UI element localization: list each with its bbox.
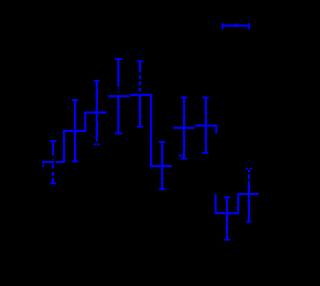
- error bar EB10 split top cap: [246, 168, 253, 170]
- error bar EB9 vertical: [226, 197, 228, 240]
- error bar EB5 caps: [137, 61, 144, 126]
- error bar EB3 vertical: [96, 81, 98, 142]
- step line bin 8: [195, 126, 216, 134]
- step line bins 1-3: [56, 112, 107, 162]
- error bar EB8 caps: [202, 98, 209, 153]
- step line bins 9-10: [216, 194, 259, 213]
- error bar EB3 split bottom cap: [94, 143, 100, 145]
- error bar EB8 vertical: [205, 98, 207, 153]
- error bar EB10 vertical: [248, 170, 250, 222]
- legend marker bump: [235, 24, 238, 26]
- legend sample line: [223, 25, 250, 27]
- legend caps: [223, 23, 250, 29]
- stray dash near bin7: [179, 155, 182, 157]
- error bar EB2 caps: [72, 100, 79, 161]
- error bar EB3 top cap: [94, 80, 100, 82]
- error bar EB5 vertical: [139, 61, 141, 126]
- step line bin 1 segment a: [42, 161, 54, 163]
- error bar EB7 vertical: [183, 97, 185, 158]
- step line bin 4: [108, 95, 130, 97]
- dashed tick below bin1 left end: [42, 164, 44, 168]
- error bar EB7 caps: [181, 97, 187, 158]
- error bar EB4 caps: [115, 59, 122, 134]
- error bar EB1 dim segment: [52, 158, 54, 160]
- error bar EB4 vertical: [117, 59, 119, 134]
- error bar EB4 dim dashes: [117, 88, 119, 93]
- error bar EB2 vertical: [74, 100, 76, 161]
- error bar EB1 vertical: [52, 141, 54, 184]
- error bar EB9 caps: [224, 197, 231, 240]
- error bar EB1 caps: [50, 141, 57, 184]
- step line bins 5-6: [130, 95, 172, 166]
- error bar EB6 vertical: [161, 142, 163, 190]
- error bar EB6 caps: [159, 142, 166, 190]
- step line bin 7: [173, 127, 195, 129]
- error bar EB10 bottom cap: [246, 221, 252, 223]
